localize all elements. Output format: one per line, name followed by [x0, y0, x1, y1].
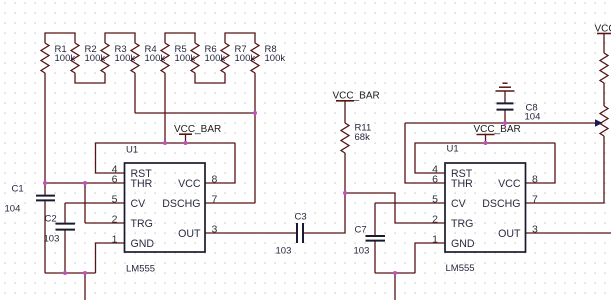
wire CV pin 5 U1	[65, 202, 125, 204]
capacitor C1 plates	[36, 195, 55, 197]
resistor R5	[161, 43, 169, 73]
wire OUT pin 3 U1 to C3	[205, 232, 297, 234]
junction rail edge wire	[83, 271, 87, 275]
svg-text:100k: 100k	[205, 53, 226, 64]
wire VCC_BAR loop U1(2) right to pin 8	[526, 143, 556, 183]
capacitor C7 bottom lead	[374, 241, 376, 273]
capacitor C2 bottom lead	[64, 230, 66, 273]
svg-text:VCC: VCC	[595, 24, 611, 35]
svg-text:6: 6	[112, 174, 118, 186]
svg-text:68k: 68k	[355, 132, 371, 143]
svg-text:2: 2	[432, 214, 438, 226]
capacitor C1 bottom lead	[44, 201, 46, 273]
svg-text:3: 3	[532, 224, 538, 236]
wire C3 right to junction	[303, 193, 345, 233]
svg-text:104: 104	[5, 204, 21, 215]
capacitor C8 power symbol bars	[503, 82, 508, 84]
svg-text:CV: CV	[451, 198, 467, 210]
capacitor C2 top lead	[64, 203, 66, 223]
wire GND pin 1 U1(2)	[415, 243, 445, 273]
power port VCC_BAR bar (U1 left)	[179, 133, 192, 135]
chip U1(2) body	[445, 163, 526, 252]
resistor R4	[131, 43, 139, 73]
capacitor C3 plates	[296, 223, 298, 243]
power port VCC_BAR bar (R11)	[336, 100, 354, 102]
wire junction to TRG pin 2 U1(2)	[345, 193, 445, 223]
capacitor C8 bottom lead	[504, 110, 506, 123]
junction rail2 edge wire	[393, 271, 397, 275]
wire bottom rail U1(2)	[375, 272, 415, 274]
wire between right resistors	[603, 83, 605, 106]
svg-text:100k: 100k	[235, 53, 256, 64]
junction R5 on VCC_BAR loop	[163, 141, 167, 145]
svg-text:GND: GND	[451, 238, 475, 250]
junction THR/R1/C1	[43, 181, 47, 185]
capacitor C8 top lead	[504, 91, 506, 103]
svg-text:GND: GND	[131, 238, 155, 250]
svg-text:VCC_BAR: VCC_BAR	[174, 124, 221, 135]
capacitor C7 top lead	[374, 203, 376, 236]
resistor R3	[101, 43, 109, 73]
svg-text:LM555: LM555	[446, 263, 475, 274]
wire top rail VCC net	[405, 122, 596, 124]
junction power port U1(2)	[484, 141, 488, 145]
svg-text:VCC_BAR: VCC_BAR	[474, 124, 521, 135]
svg-text:U1: U1	[447, 144, 459, 155]
svg-text:104: 104	[525, 111, 541, 122]
wire arrow into right resistor	[595, 119, 603, 126]
wire R8 bottom down to DSCHG corner	[254, 73, 256, 203]
svg-text:1: 1	[432, 234, 438, 246]
svg-text:5: 5	[432, 194, 438, 206]
junction power port U1	[184, 141, 188, 145]
svg-text:DSCHG: DSCHG	[162, 198, 200, 210]
svg-text:8: 8	[532, 174, 538, 186]
resistor R11	[341, 123, 349, 153]
resistor R(top right) lead	[603, 34, 605, 54]
wire THR to TRG vertical	[84, 183, 86, 223]
svg-text:DSCHG: DSCHG	[482, 198, 520, 210]
svg-text:C2: C2	[45, 213, 57, 224]
wire bottom rail U1	[45, 272, 96, 274]
svg-text:6: 6	[432, 174, 438, 186]
svg-text:7: 7	[532, 194, 538, 206]
svg-text:103: 103	[44, 233, 60, 244]
capacitor C7 plates	[366, 235, 386, 237]
svg-text:LM555: LM555	[126, 263, 155, 274]
svg-text:OUT: OUT	[178, 228, 201, 240]
wire R6 bottom to R7 bottom	[195, 73, 225, 83]
wire CV pin 5 U1(2)	[375, 202, 445, 204]
resistor R2	[71, 43, 79, 73]
resistor R11 bottom lead	[344, 153, 346, 193]
power port VCC_BAR bar (U1(2))	[477, 134, 495, 136]
resistor R8	[251, 43, 259, 73]
power port VCC_BAR stem (U1(2))	[485, 135, 487, 144]
svg-text:100k: 100k	[145, 53, 166, 64]
junction C8 on top rail	[503, 121, 507, 125]
wire down to sheet edge (left)	[84, 273, 86, 300]
wire GND pin 1 U1	[96, 243, 125, 273]
wire VCC_BAR loop U1 left	[96, 143, 236, 173]
wire TRG pin 2 U1	[85, 222, 125, 224]
wire VCC_BAR loop U1 right to pin 8	[205, 143, 235, 183]
wire THR pin 6 U1(2) from top rail	[405, 123, 445, 183]
wire R7 top to R8 top	[225, 33, 255, 43]
svg-text:100k: 100k	[115, 53, 136, 64]
svg-text:VCC_BAR: VCC_BAR	[333, 90, 380, 101]
svg-text:3: 3	[212, 224, 218, 236]
svg-text:1: 1	[112, 234, 118, 246]
wire R5 top to R6 top	[165, 33, 195, 43]
resistor R6	[191, 43, 199, 73]
svg-text:C7: C7	[355, 224, 367, 235]
wire R2 bottom to R3 bottom	[75, 73, 105, 83]
capacitor C1 top lead	[44, 183, 46, 195]
junction THR/TRG tap	[83, 181, 87, 185]
svg-text:U1: U1	[126, 145, 138, 156]
junction R4 wire on R8 line	[253, 111, 257, 115]
wire DSCHG pin 7 U1(2) to right resistor	[526, 136, 605, 203]
svg-text:103: 103	[276, 246, 292, 257]
wire R1 bottom down to THR node	[44, 73, 46, 183]
svg-text:100k: 100k	[85, 53, 106, 64]
junction R11/C3/TRG node	[343, 191, 347, 195]
junction rail C2	[63, 271, 67, 275]
svg-text:2: 2	[112, 214, 118, 226]
wire R4 bottom down	[134, 73, 136, 113]
svg-text:CV: CV	[131, 198, 147, 210]
capacitor C8 plates	[497, 102, 514, 104]
wire R5 bottom down to VCC_BAR rail	[164, 73, 166, 143]
svg-text:103: 103	[354, 246, 370, 257]
svg-text:THR: THR	[451, 178, 473, 190]
svg-text:100k: 100k	[265, 53, 286, 64]
wire DSCHG pin 7 U1	[205, 202, 255, 204]
power port VCC_BAR stem (U1 left)	[185, 134, 187, 143]
resistor R1	[41, 43, 49, 73]
svg-text:VCC: VCC	[498, 178, 521, 190]
svg-text:THR: THR	[131, 178, 153, 190]
svg-text:100k: 100k	[55, 53, 76, 64]
wire R3 top to R4 top	[105, 33, 135, 43]
wire OUT pin 3 U1(2) to sheet edge	[526, 232, 611, 234]
resistor R (right middle)	[600, 106, 608, 136]
resistor R (top right)	[600, 53, 608, 83]
power port VCC bar (top right)	[597, 33, 611, 35]
svg-text:TRG: TRG	[131, 218, 153, 230]
capacitor C2 plates	[56, 223, 76, 225]
wire R1 top to R2 top	[45, 33, 75, 43]
wire R4 bottom across to R8 line	[135, 112, 255, 114]
resistor R11 top lead	[344, 101, 346, 123]
wire THR pin 6 U1	[45, 182, 125, 184]
svg-text:C1: C1	[12, 184, 24, 195]
resistor R7	[221, 43, 229, 73]
wire VCC_BAR loop U1(2) left	[415, 143, 555, 173]
svg-text:100k: 100k	[175, 53, 196, 64]
chip U1 body	[125, 163, 206, 252]
svg-text:OUT: OUT	[498, 228, 521, 240]
svg-text:C3: C3	[295, 211, 307, 222]
svg-text:7: 7	[212, 194, 218, 206]
svg-text:TRG: TRG	[451, 218, 473, 230]
svg-text:8: 8	[212, 174, 218, 186]
svg-text:5: 5	[112, 194, 118, 206]
svg-text:VCC: VCC	[178, 178, 201, 190]
wire down to sheet edge (right)	[394, 273, 396, 300]
